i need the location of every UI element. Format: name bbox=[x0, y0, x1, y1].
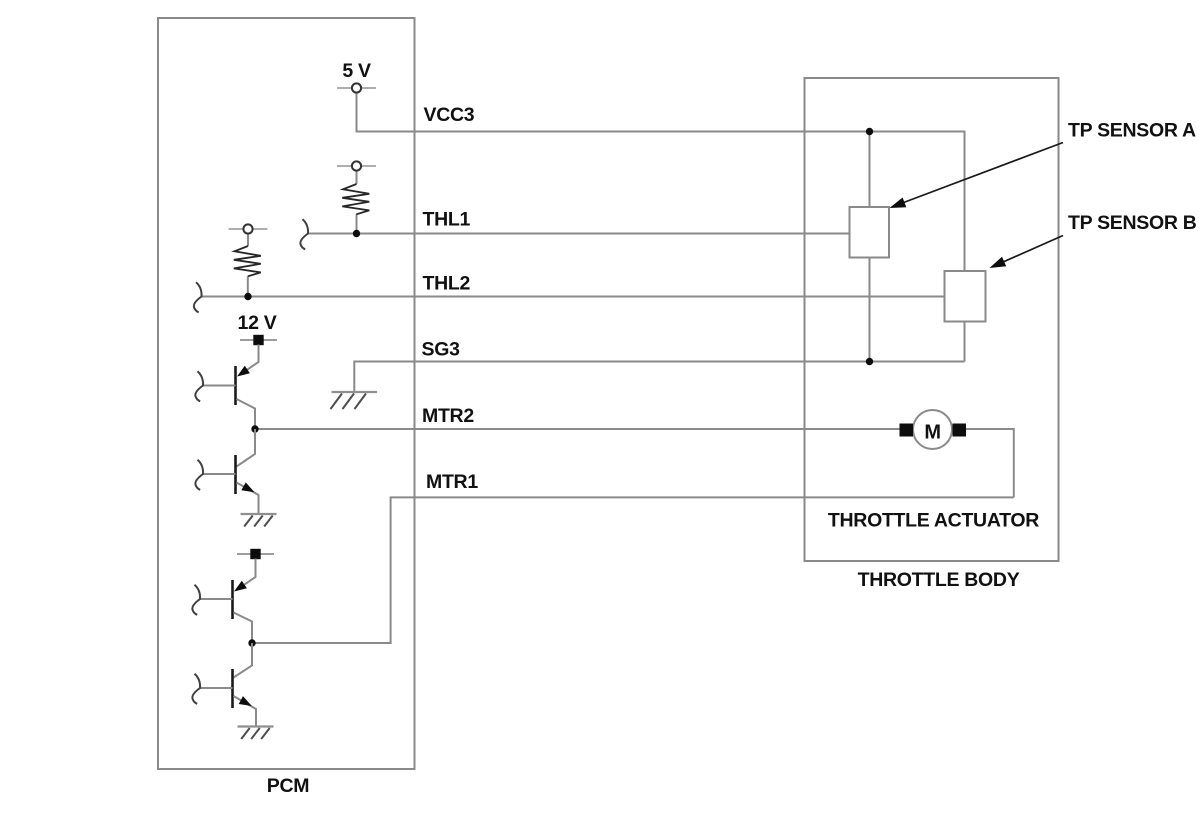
svg-text:VCC3: VCC3 bbox=[424, 104, 475, 126]
svg-text:THROTTLE ACTUATOR: THROTTLE ACTUATOR bbox=[828, 509, 1039, 531]
svg-text:THL2: THL2 bbox=[423, 272, 471, 294]
svg-text:PCM: PCM bbox=[267, 775, 309, 797]
svg-text:TP SENSOR B: TP SENSOR B bbox=[1068, 212, 1197, 234]
svg-text:THROTTLE BODY: THROTTLE BODY bbox=[858, 569, 1020, 591]
svg-text:M: M bbox=[924, 422, 940, 444]
svg-text:12 V: 12 V bbox=[238, 312, 277, 334]
svg-text:5 V: 5 V bbox=[342, 60, 371, 82]
svg-text:MTR2: MTR2 bbox=[422, 405, 474, 427]
svg-text:SG3: SG3 bbox=[422, 338, 461, 360]
svg-text:THL1: THL1 bbox=[423, 209, 471, 231]
svg-text:MTR1: MTR1 bbox=[426, 471, 478, 493]
svg-text:TP SENSOR A: TP SENSOR A bbox=[1068, 120, 1196, 142]
